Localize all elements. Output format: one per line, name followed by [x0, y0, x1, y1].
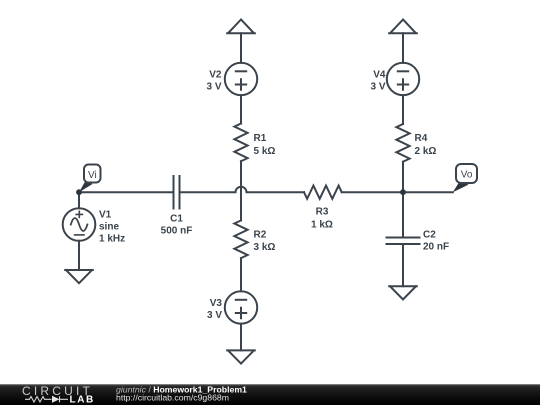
label R2: [254, 229, 276, 253]
capacitor C1: [174, 176, 180, 209]
svg-text:V4: V4: [373, 69, 386, 80]
svg-text:V1: V1: [99, 210, 112, 221]
wire: top flag to V4: [402, 33, 404, 63]
wire: Vi node down to V1: [78, 192, 80, 208]
svg-text:3 V: 3 V: [207, 310, 222, 321]
power flag top center: [227, 20, 255, 34]
svg-text:R3: R3: [316, 207, 329, 218]
label C2: [423, 229, 449, 252]
svg-text:R1: R1: [254, 133, 267, 144]
svg-text:http://circuitlab.com/c9g868m: http://circuitlab.com/c9g868m: [116, 392, 229, 402]
svg-text:LAB: LAB: [70, 395, 95, 405]
voltage source V1 (sine): [63, 208, 96, 241]
voltage source V3: [225, 291, 257, 323]
wire: C1 to R3 with hop over vertical wire: [180, 187, 305, 193]
net flag Vi: [79, 165, 101, 193]
ground (left): [65, 270, 93, 283]
resistor R3: [304, 186, 342, 199]
svg-text:R4: R4: [415, 133, 428, 144]
net flag Vo: [453, 164, 477, 192]
voltage source V2: [225, 63, 257, 95]
svg-text:R2: R2: [254, 229, 267, 240]
wire: Vi node to C1: [79, 191, 174, 193]
node dot output: [400, 189, 406, 195]
svg-text:1 kHz: 1 kHz: [99, 234, 125, 245]
svg-text:Vo: Vo: [461, 170, 473, 181]
svg-text:3 V: 3 V: [206, 81, 221, 92]
resistor R4: [396, 124, 409, 162]
wire: R4 to output node: [402, 162, 404, 193]
svg-text:2 kΩ: 2 kΩ: [415, 146, 437, 157]
ground (center): [227, 350, 255, 363]
label V3: [207, 298, 222, 321]
label C1: [161, 214, 193, 237]
wire: V1 to ground: [78, 241, 80, 270]
svg-text:V2: V2: [209, 69, 222, 80]
footer bar: [0, 384, 540, 405]
wire: top flag to V2: [240, 33, 242, 63]
svg-text:3 V: 3 V: [370, 81, 385, 92]
label V4: [370, 69, 385, 92]
CircuitLab logo diode triangle: [52, 396, 60, 403]
power flag top right: [389, 20, 417, 34]
node dot Vi: [76, 189, 82, 195]
wire: R3 to output node: [342, 191, 403, 193]
label V1: [99, 210, 125, 245]
capacitor C2: [387, 238, 420, 245]
wire: output node to C2: [402, 192, 404, 237]
voltage source V4: [387, 63, 419, 95]
svg-text:C2: C2: [423, 229, 436, 240]
svg-text:3 kΩ: 3 kΩ: [254, 242, 276, 253]
label R1: [254, 133, 276, 157]
svg-text:V3: V3: [210, 298, 223, 309]
resistor R1: [234, 124, 247, 162]
svg-text:20 nF: 20 nF: [423, 241, 449, 252]
wire: output node to Vo flag: [403, 191, 453, 193]
ground (right): [389, 286, 417, 299]
CircuitLab logo resistor-diode line: [25, 396, 68, 402]
wire: R2 to V3: [240, 258, 242, 291]
svg-text:5 kΩ: 5 kΩ: [254, 146, 276, 157]
wire: C2 to ground: [402, 244, 404, 286]
wire: R1 down through crossing to R2: [240, 161, 242, 220]
wire: V4 to R4: [402, 95, 404, 124]
wire: V3 to ground: [240, 324, 242, 351]
svg-text:C1: C1: [170, 214, 183, 225]
svg-text:500 nF: 500 nF: [161, 226, 193, 237]
svg-text:1 kΩ: 1 kΩ: [311, 220, 333, 231]
label R4: [415, 133, 437, 157]
resistor R2: [234, 220, 247, 258]
svg-text:sine: sine: [99, 222, 119, 233]
label V2: [206, 69, 221, 92]
label R3: [311, 207, 333, 231]
wire: V2 to R1: [240, 95, 242, 123]
svg-text:Vi: Vi: [88, 170, 97, 181]
